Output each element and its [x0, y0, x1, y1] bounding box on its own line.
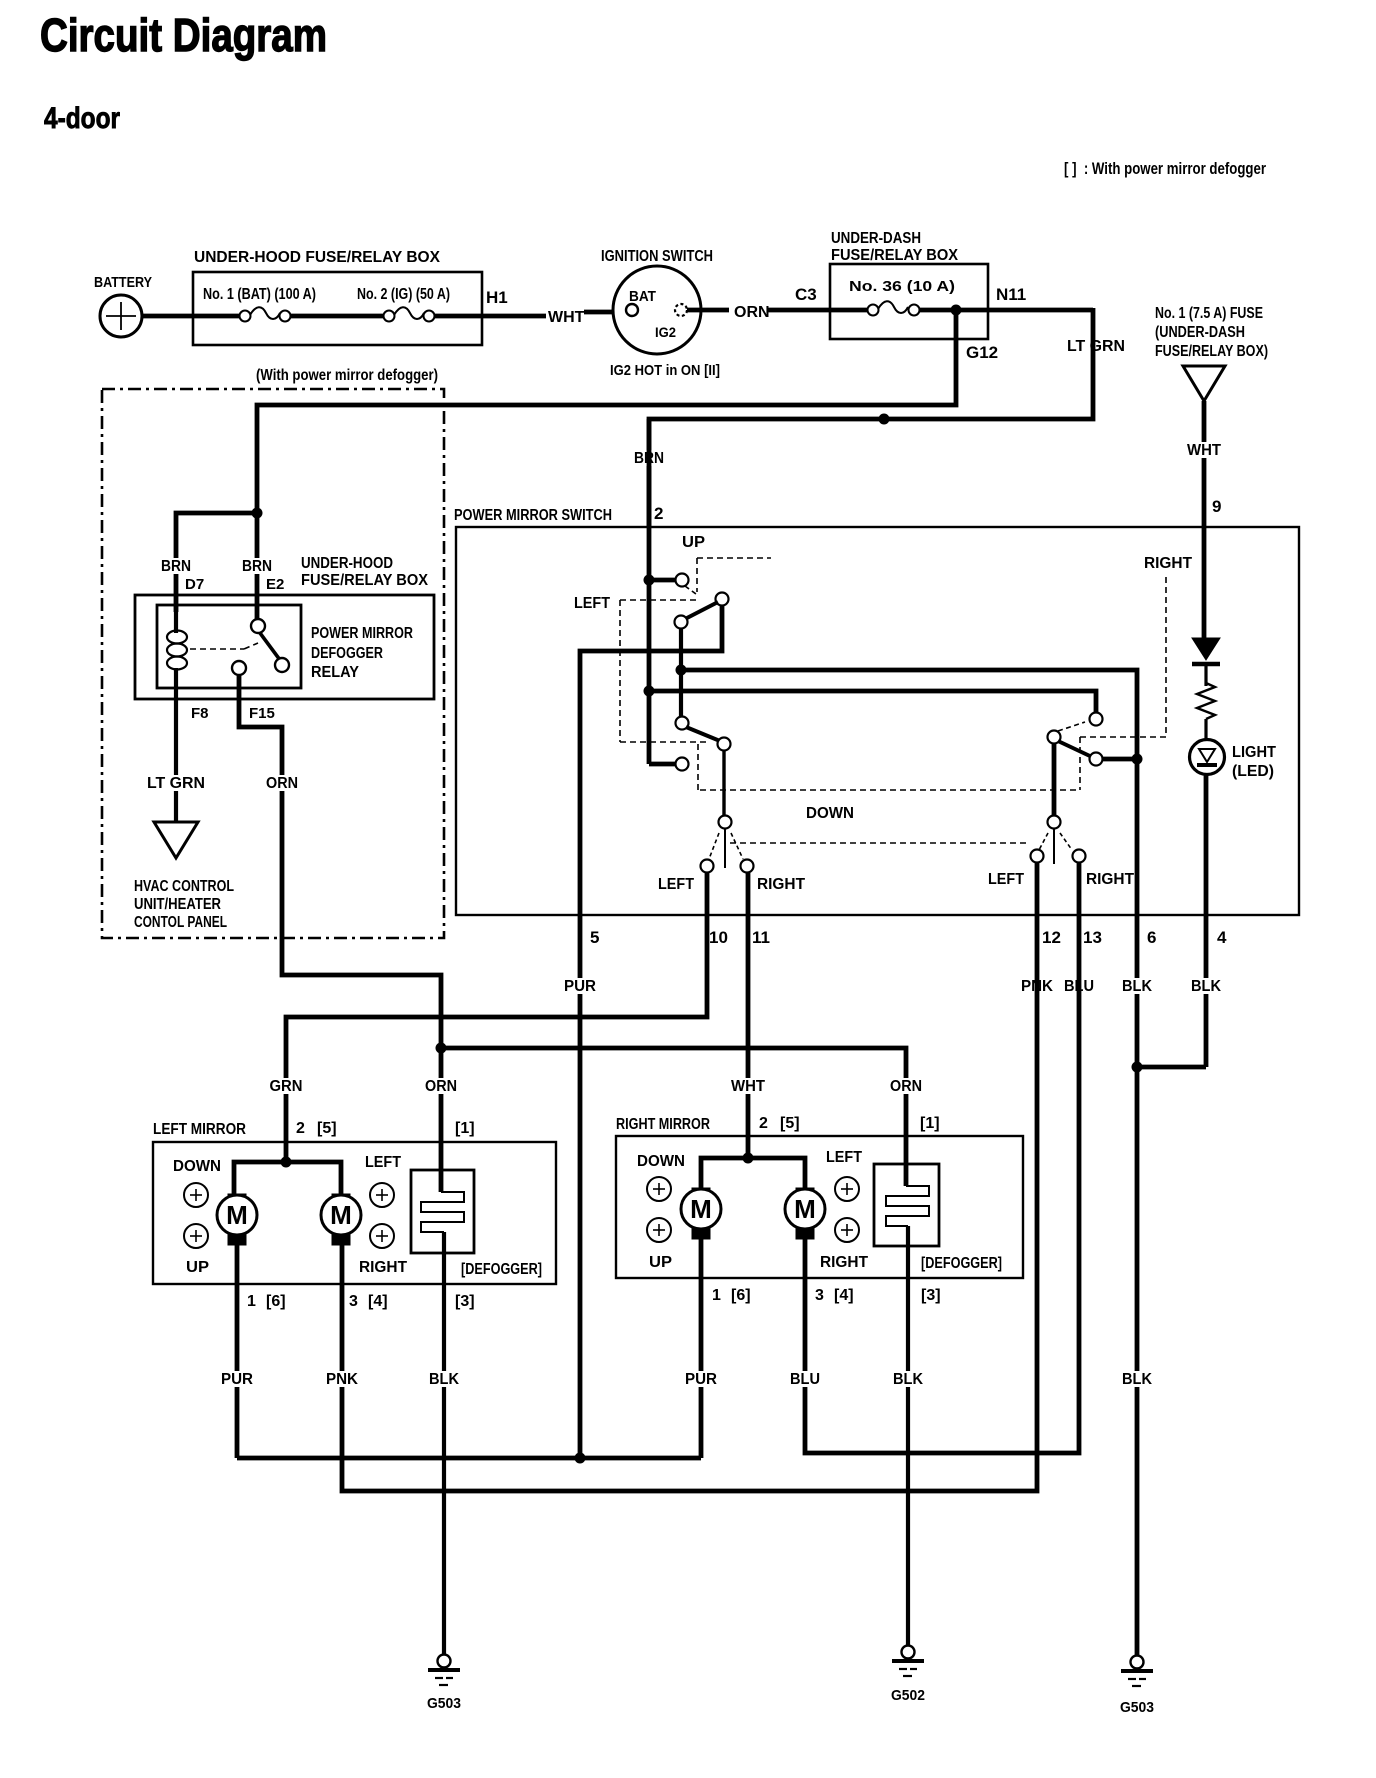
down selector actuator	[724, 829, 726, 868]
wire N11 out of box	[919, 308, 1093, 313]
svg-text:ORN: ORN	[734, 304, 770, 321]
svg-text:PUR: PUR	[564, 978, 596, 995]
svg-text:IG2 HOT in ON [II]: IG2 HOT in ON [II]	[610, 362, 720, 379]
svg-text:G12: G12	[966, 343, 998, 362]
svg-text:BLK: BLK	[429, 1371, 459, 1388]
svg-text:FUSE/RELAY BOX: FUSE/RELAY BOX	[301, 572, 428, 589]
svg-text:DOWN: DOWN	[173, 1158, 221, 1175]
svg-text:13: 13	[1083, 928, 1102, 947]
svg-text:[6]: [6]	[731, 1287, 751, 1304]
svg-text:[1]: [1]	[920, 1115, 940, 1132]
svg-text:RIGHT: RIGHT	[757, 876, 805, 893]
svg-text:9: 9	[1212, 497, 1221, 516]
svg-text:BLK: BLK	[1122, 1371, 1152, 1388]
bottom color labels right mirror	[683, 1371, 719, 1387]
wire battery to under-hood fuse box	[142, 314, 240, 319]
wire color labels under switch	[562, 978, 598, 994]
svg-text:G503: G503	[1120, 1699, 1154, 1716]
svg-text:CONTOL PANEL: CONTOL PANEL	[134, 914, 227, 931]
svg-text:PNK: PNK	[326, 1371, 358, 1388]
svg-text:5: 5	[590, 928, 599, 947]
svg-text:BRN: BRN	[242, 558, 272, 575]
svg-text:Circuit Diagram: Circuit Diagram	[40, 9, 327, 61]
pin 4 merge to BLK	[1137, 1065, 1206, 1070]
svg-text:LEFT: LEFT	[826, 1149, 862, 1166]
svg-text:[ ] : With power mirror defog: [ ] : With power mirror defogger	[1064, 159, 1266, 178]
dashed LEFT actuator box	[620, 599, 697, 601]
svg-text:ORN: ORN	[425, 1078, 457, 1095]
svg-text:2: 2	[296, 1120, 305, 1137]
svg-text:BLK: BLK	[893, 1371, 923, 1388]
svg-text:UP: UP	[649, 1254, 672, 1271]
svg-text:UNDER-DASH: UNDER-DASH	[831, 230, 921, 247]
svg-text:UNIT/HEATER: UNIT/HEATER	[134, 896, 221, 913]
svg-text:UNDER-HOOD: UNDER-HOOD	[301, 555, 393, 572]
svg-text:No. 2 (IG) (50 A): No. 2 (IG) (50 A)	[357, 286, 450, 303]
svg-text:POWER MIRROR SWITCH: POWER MIRROR SWITCH	[454, 507, 612, 524]
svg-text:[5]: [5]	[780, 1115, 800, 1132]
terminal IG2	[675, 304, 687, 316]
wire IG2 to under-dash box, ORN	[687, 308, 729, 313]
left mirror left/right motor M	[332, 1194, 350, 1205]
svg-text:DEFOGGER: DEFOGGER	[311, 645, 383, 662]
junction dot bus B	[644, 686, 655, 697]
svg-text:[3]: [3]	[921, 1287, 941, 1304]
label ORN below relay	[264, 775, 300, 791]
left mirror box	[153, 1142, 556, 1284]
wire BRN to relay coil D7	[176, 513, 257, 612]
svg-text:F8: F8	[191, 705, 209, 722]
svg-text:DOWN: DOWN	[637, 1153, 685, 1170]
wire ORN branch to right mirror defogger	[441, 1048, 906, 1186]
svg-text:4: 4	[1217, 928, 1227, 947]
svg-text:2: 2	[654, 504, 663, 523]
svg-text:11: 11	[752, 928, 770, 947]
adjust icons left	[184, 1183, 208, 1207]
PUR bus wire	[237, 1456, 701, 1461]
wire right mirror motor1 PUR to bus	[699, 1239, 704, 1458]
svg-text:PUR: PUR	[685, 1371, 717, 1388]
svg-text:3: 3	[349, 1293, 358, 1310]
junction dot bus A	[676, 665, 687, 676]
dashed UP actuator box	[697, 557, 771, 559]
svg-text:No. 1 (7.5 A) FUSE: No. 1 (7.5 A) FUSE	[1155, 305, 1263, 322]
wire between fuses	[290, 314, 384, 319]
wire pin 10 GRN to left mirror	[286, 872, 707, 1162]
svg-text:RELAY: RELAY	[311, 664, 359, 681]
svg-text:LEFT: LEFT	[574, 595, 610, 612]
svg-text:FUSE/RELAY BOX): FUSE/RELAY BOX)	[1155, 343, 1268, 360]
wire left mirror motor1 PUR	[235, 1245, 240, 1458]
label BRN on switch feed	[632, 450, 666, 466]
svg-text:H1: H1	[486, 288, 508, 307]
power mirror defogger relay U1	[157, 605, 301, 688]
right mirror box	[616, 1136, 1023, 1278]
svg-text:LEFT: LEFT	[988, 871, 1024, 888]
bus wire A to right side	[681, 670, 1137, 1655]
bus wire B to right side	[649, 691, 1096, 713]
diode D1	[1192, 638, 1220, 660]
svg-text:BLK: BLK	[1122, 978, 1152, 995]
svg-text:UP: UP	[186, 1259, 209, 1276]
svg-text:LEFT: LEFT	[658, 876, 694, 893]
svg-text:BLU: BLU	[790, 1371, 820, 1388]
right mirror left/right motor M	[796, 1188, 814, 1199]
svg-text:WHT: WHT	[731, 1078, 765, 1095]
svg-text:G502: G502	[891, 1687, 925, 1704]
wire left mirror defogger BLK to ground	[442, 1232, 446, 1654]
wire LT GRN down-left to power mirror switch feed	[649, 308, 1093, 527]
terminal BAT	[626, 304, 638, 316]
right rocker arm	[1048, 731, 1061, 744]
wire LED to pin 4	[1204, 774, 1209, 1067]
right mirror up/down motor M	[692, 1188, 710, 1199]
svg-text:HVAC CONTROL: HVAC CONTROL	[134, 878, 234, 895]
svg-text:WHT: WHT	[1187, 442, 1221, 459]
svg-text:PUR: PUR	[221, 1371, 253, 1388]
wire LT GRN to HVAC control	[174, 699, 178, 822]
svg-text:RIGHT: RIGHT	[359, 1259, 407, 1276]
svg-text:ORN: ORN	[890, 1078, 922, 1095]
wire pin 12 PNK bus to left mirror motor	[342, 862, 1037, 1491]
svg-text:No. 1 (BAT) (100 A): No. 1 (BAT) (100 A)	[203, 286, 316, 303]
under-hood fuse/relay box (relay)	[135, 595, 434, 699]
svg-text:POWER MIRROR: POWER MIRROR	[311, 625, 413, 642]
wire right mirror defogger BLK to ground G502	[906, 1226, 910, 1645]
wire BRN to relay contact E2	[255, 513, 260, 619]
right mirror defogger element	[874, 1164, 939, 1246]
svg-text:[DEFOGGER]: [DEFOGGER]	[461, 1261, 542, 1278]
svg-text:[5]: [5]	[317, 1120, 337, 1137]
svg-text:GRN: GRN	[270, 1078, 303, 1095]
battery	[100, 295, 142, 337]
wire from G12 down and left to defogger circuit (BRN feed)	[257, 310, 956, 513]
right selector common	[1052, 744, 1057, 816]
ground G503	[438, 1655, 451, 1668]
svg-text:DOWN: DOWN	[806, 805, 854, 822]
svg-text:RIGHT: RIGHT	[1086, 871, 1134, 888]
svg-text:ORN: ORN	[266, 775, 298, 792]
svg-text:IGNITION SWITCH: IGNITION SWITCH	[601, 248, 713, 265]
label WHT right	[729, 1078, 767, 1094]
label ORN left	[423, 1078, 459, 1094]
wire arm2 to down common	[722, 750, 725, 816]
wire arm1 lower contact to bus A	[679, 628, 683, 718]
wire pin 11 WHT to right mirror	[746, 872, 751, 1158]
HVAC connector triangle	[154, 822, 198, 858]
ground G502	[902, 1646, 915, 1659]
svg-text:[4]: [4]	[368, 1293, 388, 1310]
svg-text:1: 1	[712, 1287, 721, 1304]
svg-text:C3: C3	[795, 285, 817, 304]
power mirror switch box	[456, 527, 1299, 915]
wire WHT from fuse to switch pin 9	[1202, 401, 1207, 640]
svg-text:F15: F15	[249, 705, 275, 722]
switch feed junction to UP contact	[647, 419, 652, 764]
wire pin 13 BLU bus to right mirror motor	[805, 862, 1079, 1453]
relay switch contacts	[251, 619, 265, 633]
adjust icons right-mirror right	[835, 1177, 859, 1201]
svg-text:2: 2	[759, 1115, 768, 1132]
contact circle bus B right	[1090, 713, 1103, 726]
wire H1 to ignition switch, WHT	[434, 314, 546, 319]
svg-text:G503: G503	[427, 1695, 461, 1712]
svg-text:LEFT: LEFT	[365, 1154, 401, 1171]
junction dot on BRN feed wire	[879, 414, 890, 425]
svg-text:[1]: [1]	[455, 1120, 475, 1137]
svg-text:1: 1	[247, 1293, 256, 1310]
under-hood fuse/relay box	[193, 272, 482, 345]
svg-text:M: M	[794, 1194, 816, 1224]
svg-text:E2: E2	[266, 576, 284, 593]
right mirror motor bus	[701, 1158, 805, 1190]
svg-text:3: 3	[815, 1287, 824, 1304]
label BLK far right	[1120, 1371, 1154, 1387]
adjust icons right-mirror left	[647, 1177, 671, 1201]
ground G503	[1131, 1656, 1144, 1669]
label ORN right	[888, 1078, 924, 1094]
contact circle (arm2 top)	[676, 717, 689, 730]
svg-text:12: 12	[1042, 928, 1061, 947]
svg-text:[6]: [6]	[266, 1293, 286, 1310]
svg-text:[4]: [4]	[834, 1287, 854, 1304]
svg-text:BLK: BLK	[1191, 978, 1221, 995]
relay coil	[174, 605, 178, 633]
svg-text:LT GRN: LT GRN	[147, 775, 205, 792]
wire from arm1 to pin 5 (PUR)	[580, 605, 722, 1458]
svg-text:IG2: IG2	[655, 324, 676, 340]
svg-text:FUSE/RELAY BOX: FUSE/RELAY BOX	[831, 247, 958, 264]
svg-text:UNDER-HOOD FUSE/RELAY BOX: UNDER-HOOD FUSE/RELAY BOX	[194, 249, 440, 266]
left mirror defogger element	[411, 1170, 474, 1253]
svg-text:6: 6	[1147, 928, 1156, 947]
svg-text:BRN: BRN	[161, 558, 191, 575]
left mirror motor bus	[234, 1162, 341, 1196]
under-dash fuse/relay box	[830, 264, 988, 339]
svg-text:LT GRN: LT GRN	[1067, 338, 1125, 355]
junction dot BRN split	[252, 508, 263, 519]
svg-text:D7: D7	[185, 576, 204, 593]
svg-text:(UNDER-DASH: (UNDER-DASH	[1155, 324, 1245, 341]
label BRN at D7	[159, 558, 193, 574]
resistor R1	[1197, 683, 1215, 719]
svg-text:[DEFOGGER]: [DEFOGGER]	[921, 1255, 1002, 1272]
relay coupling dashed link	[190, 648, 244, 650]
svg-text:No. 36 (10 A): No. 36 (10 A)	[849, 278, 955, 295]
svg-text:LIGHT: LIGHT	[1232, 744, 1276, 761]
svg-text:BAT: BAT	[629, 288, 656, 305]
svg-text:BATTERY: BATTERY	[94, 274, 152, 291]
svg-text:RIGHT: RIGHT	[820, 1254, 868, 1271]
stub to DOWN contact	[649, 762, 676, 767]
rocker arm 1 (up)	[716, 593, 729, 606]
svg-text:LEFT MIRROR: LEFT MIRROR	[153, 1121, 246, 1138]
svg-text:M: M	[330, 1200, 352, 1230]
rocker arm 2 (down)	[686, 727, 720, 741]
svg-text:(With power mirror defogger): (With power mirror defogger)	[256, 367, 438, 384]
svg-text:(LED): (LED)	[1232, 763, 1274, 780]
label GRN	[268, 1078, 305, 1094]
svg-text:UP: UP	[682, 534, 705, 551]
adjust icons right	[370, 1183, 394, 1207]
svg-text:M: M	[690, 1194, 712, 1224]
svg-text:RIGHT MIRROR: RIGHT MIRROR	[616, 1116, 710, 1133]
bottom color labels left mirror	[219, 1371, 255, 1387]
svg-text:M: M	[226, 1200, 248, 1230]
dashed DOWN coupling lines	[700, 789, 1080, 791]
svg-text:[3]: [3]	[455, 1293, 475, 1310]
label BRN at E2	[240, 558, 274, 574]
svg-text:4-door: 4-door	[44, 102, 120, 135]
dashed RIGHT actuator lines	[1165, 577, 1167, 737]
svg-text:10: 10	[709, 928, 728, 947]
left mirror up/down motor M	[228, 1194, 246, 1205]
contact circle UP feed	[676, 574, 689, 587]
LED light	[1190, 740, 1225, 775]
junction at G12 output	[951, 305, 962, 316]
svg-text:WHT: WHT	[548, 309, 585, 326]
stub contact to BLK bus	[1103, 757, 1137, 762]
svg-text:RIGHT: RIGHT	[1144, 555, 1192, 572]
svg-text:N11: N11	[996, 285, 1026, 304]
